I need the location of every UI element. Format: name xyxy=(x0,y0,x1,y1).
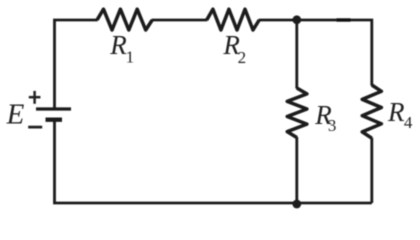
resistor R3 xyxy=(287,88,307,138)
resistor R2 xyxy=(207,9,260,30)
svg-text:E: E xyxy=(6,99,25,131)
resistor R4 xyxy=(362,85,381,138)
battery E positive plate (long) xyxy=(36,107,71,110)
node junction dot: top (R3 branch to top wire) xyxy=(292,15,301,24)
battery E negative plate (short, thick) xyxy=(46,118,63,122)
wire: top-left corner (left wire upper part + top wire to R1) xyxy=(55,20,98,109)
node junction dot: bottom (R3 branch to bottom wire) xyxy=(292,200,301,209)
svg-text:2: 2 xyxy=(238,48,247,67)
wire: R2 to top-right corner, down to R4 top lead xyxy=(259,20,372,86)
wire: between R1 and R2 xyxy=(152,19,208,22)
svg-text:4: 4 xyxy=(404,113,413,132)
wire: slightly heavier segment on top wire left of R4 corner xyxy=(337,18,351,21)
svg-text:3: 3 xyxy=(328,116,337,135)
battery minus sign xyxy=(28,126,42,129)
svg-text:1: 1 xyxy=(126,48,135,67)
wire: battery to bottom-left corner, bottom wire to R3 node xyxy=(55,120,372,203)
wire: R3 branch top lead xyxy=(295,20,298,89)
svg-text:R: R xyxy=(387,97,405,127)
wire: R4 branch bottom lead xyxy=(370,138,373,203)
svg-text:R: R xyxy=(109,30,127,60)
wire: R3 branch bottom lead xyxy=(295,137,298,203)
battery plus sign xyxy=(29,91,41,104)
resistor R1 xyxy=(97,9,152,30)
